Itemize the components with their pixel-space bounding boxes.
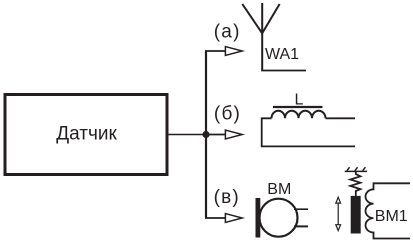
plunger core BM1 [351, 196, 361, 234]
wire branch (b) horizontal [206, 134, 226, 136]
svg-text:BM1: BM1 [375, 208, 408, 225]
svg-text:Датчик: Датчик [56, 123, 117, 144]
arrow v [225, 214, 242, 223]
wire trunk vertical [205, 51, 207, 218]
spring [350, 172, 360, 197]
motion double arrow [336, 197, 341, 230]
motor BM brush bar [256, 198, 261, 238]
inductor L core bar [273, 106, 323, 108]
wire inductor right lead [326, 117, 356, 119]
antenna WA1 [242, 3, 279, 71]
inductor L coil [272, 111, 326, 119]
wire branch (a) horizontal [205, 50, 226, 52]
support hatched wall [345, 167, 367, 171]
wire box to junction [169, 134, 207, 136]
wire branch (v) horizontal [205, 217, 226, 219]
svg-text:WA1: WA1 [265, 46, 299, 63]
svg-text:(а): (а) [214, 22, 241, 43]
sensor block Датчик [5, 95, 167, 175]
wire inductor left lead [262, 118, 355, 146]
svg-text:(в): (в) [214, 187, 240, 208]
svg-text:L: L [295, 91, 304, 108]
wire motor terminal bottom [294, 225, 308, 227]
arrow b [225, 130, 242, 139]
svg-text:(б): (б) [214, 104, 241, 125]
node junction dot [202, 131, 209, 138]
motor BM circle [260, 199, 298, 237]
coil BM1 [366, 183, 411, 238]
wire motor terminal top [294, 208, 308, 210]
svg-text:BM: BM [267, 181, 291, 198]
wire antenna bottom [261, 70, 306, 72]
arrow a [225, 47, 242, 56]
